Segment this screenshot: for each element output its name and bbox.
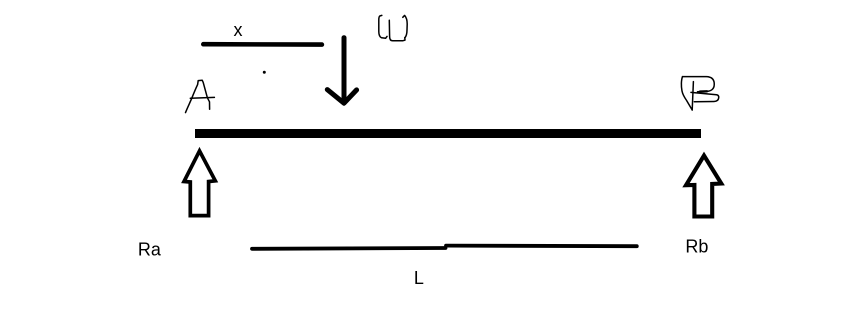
svg-text:L: L: [414, 268, 424, 288]
svg-text:x: x: [234, 20, 243, 40]
svg-text:Ra: Ra: [138, 239, 162, 259]
svg-text:Rb: Rb: [685, 237, 708, 257]
